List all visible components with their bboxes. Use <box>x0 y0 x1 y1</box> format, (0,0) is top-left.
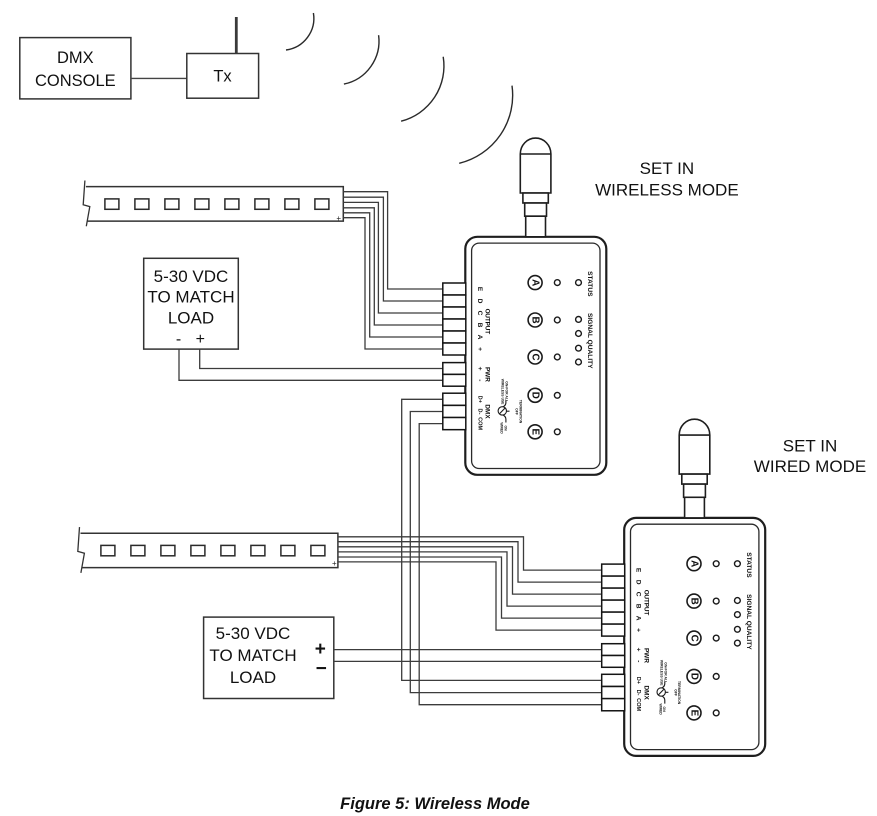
svg-text:A: A <box>689 560 700 567</box>
wire LED strip 1 to RX1 OUTPUT pin B <box>343 208 443 325</box>
svg-text:B: B <box>689 598 700 605</box>
svg-text:WIRED MODE: WIRED MODE <box>754 457 866 476</box>
svg-text:D+: D+ <box>476 396 482 404</box>
receiver RX1 DMX pin labels D+ D- COM <box>476 396 482 431</box>
receiver RX1 zone LED dots <box>554 280 560 435</box>
wire LED strip 1 to RX1 OUTPUT pin A <box>343 213 443 337</box>
svg-text:WIRELESS MODE: WIRELESS MODE <box>595 181 739 200</box>
receiver RX1 body inner outline <box>472 243 600 468</box>
svg-text:E: E <box>530 429 541 436</box>
wire RX1 DMX D- to RX2 DMX D- <box>410 412 601 693</box>
receiver RX2 termination switch <box>657 681 668 703</box>
receiver RX1 OUTPUT pin labels E D C B A + <box>476 287 483 351</box>
power supply PS1 box 5-30 VDC <box>144 258 239 349</box>
svg-text:TO MATCH: TO MATCH <box>209 646 296 665</box>
wire RX1 DMX D+ to RX2 DMX D+ <box>402 399 602 680</box>
svg-text:ON-FOR ALLWIRELESS USE: ON-FOR ALLWIRELESS USE <box>501 379 509 405</box>
svg-text:LOAD: LOAD <box>168 309 214 328</box>
receiver RX2 termination legend text <box>658 660 681 715</box>
svg-text:A: A <box>476 335 483 340</box>
svg-text:E: E <box>476 287 483 292</box>
svg-text:−: − <box>316 659 327 680</box>
wire LED strip 2 to RX2 OUTPUT pin D <box>338 542 602 582</box>
receiver RX2 PWR connector (pins + -) <box>602 644 625 668</box>
wire LED strip 2 to RX2 OUTPUT pin + <box>338 562 602 630</box>
power supply PS2 box 5-30 VDC <box>204 617 334 698</box>
svg-text:ON-FOR ALLWIRELESS USE: ON-FOR ALLWIRELESS USE <box>660 660 668 686</box>
svg-text:B: B <box>476 323 483 328</box>
svg-text:SIGNAL QUALITY: SIGNAL QUALITY <box>586 313 593 369</box>
svg-text:DMX: DMX <box>57 49 94 67</box>
wire LED strip 2 to RX2 OUTPUT pin C <box>338 547 602 594</box>
receiver RX1 body outer outline <box>465 237 606 475</box>
transmitter Tx box <box>187 54 259 99</box>
svg-text:+: + <box>476 347 483 351</box>
receiver RX2 body outer outline <box>624 518 765 756</box>
LED strip 1 LED pads <box>105 199 329 209</box>
svg-text:+: + <box>476 367 483 371</box>
svg-text:CONSOLE: CONSOLE <box>35 72 116 90</box>
receiver RX1 PWR connector (pins + -) <box>443 363 466 387</box>
LED strip 2 LED pads <box>101 545 325 555</box>
receiver RX1 SIGNAL QUALITY LED dots <box>576 317 582 365</box>
wire PS1 - to RX1 PWR - <box>179 349 443 380</box>
wire LED strip 2 to RX2 OUTPUT pin A <box>338 557 602 618</box>
LED strip 1 body <box>86 187 343 222</box>
svg-text:C: C <box>476 311 483 316</box>
receiver RX2 antenna <box>679 419 710 518</box>
svg-text:C: C <box>635 592 642 597</box>
svg-text:D-: D- <box>476 409 482 415</box>
receiver RX2 zone LED dots <box>713 561 719 716</box>
wire LED strip 2 to RX2 OUTPUT pin E <box>338 537 602 570</box>
wire LED strip 2 to RX2 OUTPUT pin B <box>338 552 602 606</box>
wire PS2 - to RX2 PWR - <box>334 660 602 662</box>
RF wave arc 1 <box>286 13 314 50</box>
LED strip 2 break mark <box>78 527 85 573</box>
svg-text:Tx: Tx <box>213 68 232 86</box>
svg-text:LOAD: LOAD <box>230 668 276 687</box>
svg-text:+: + <box>315 639 326 660</box>
receiver RX2 DMX connector (pins D+ D- COM) <box>602 674 625 710</box>
label SET IN WIRED MODE <box>754 437 866 476</box>
svg-text:SIGNAL QUALITY: SIGNAL QUALITY <box>745 594 752 650</box>
svg-text:D-: D- <box>635 690 641 696</box>
svg-text:+: + <box>196 331 205 348</box>
label SET IN WIRELESS MODE <box>595 159 739 200</box>
svg-text:D: D <box>530 392 541 399</box>
svg-text:PWR: PWR <box>484 367 491 382</box>
receiver RX1 termination legend text <box>499 379 522 434</box>
LED strip 1 break mark <box>83 181 90 227</box>
receiver RX2 SIGNAL QUALITY LED dots <box>735 598 741 646</box>
receiver RX2 OUTPUT pin labels E D C B A + <box>635 568 642 632</box>
svg-text:C: C <box>689 635 700 642</box>
receiver RX2 OUTPUT connector (pins E D C B A +) <box>602 564 625 636</box>
svg-text:+: + <box>332 559 337 568</box>
svg-text:D: D <box>635 580 642 585</box>
receiver RX2 zone indicators A B C D E <box>687 557 701 720</box>
svg-text:OUTPUT: OUTPUT <box>643 590 650 616</box>
svg-text:COM: COM <box>476 417 482 430</box>
svg-text:Figure 5: Wireless Mode: Figure 5: Wireless Mode <box>340 795 530 813</box>
receiver RX2 DMX pin labels D+ D- COM <box>635 677 641 712</box>
svg-text:TO MATCH: TO MATCH <box>147 288 234 307</box>
receiver RX2 STATUS LED dot <box>735 561 741 567</box>
svg-text:E: E <box>635 568 642 573</box>
svg-text:+: + <box>635 628 642 632</box>
wire PS2 + to RX2 PWR + <box>334 649 602 651</box>
RF wave arc 3 <box>401 57 444 121</box>
svg-text:B: B <box>635 604 642 609</box>
svg-text:DMX: DMX <box>643 685 650 700</box>
wire LED strip 1 to RX1 OUTPUT pin C <box>343 202 443 313</box>
receiver RX2 PWR pin labels + - <box>635 648 642 663</box>
svg-text:C: C <box>530 353 541 360</box>
wire LED strip 1 to RX1 OUTPUT pin + <box>343 218 443 349</box>
svg-text:PWR: PWR <box>643 648 650 663</box>
wire console to Tx <box>131 77 187 79</box>
svg-text:D: D <box>689 673 700 680</box>
svg-text:E: E <box>689 710 700 717</box>
svg-text:5-30 VDC: 5-30 VDC <box>216 624 291 643</box>
svg-text:A: A <box>635 616 642 621</box>
wire LED strip 1 to RX1 OUTPUT pin D <box>343 197 443 301</box>
svg-text:A: A <box>530 279 541 286</box>
svg-text:5-30 VDC: 5-30 VDC <box>154 267 229 286</box>
receiver RX1 OUTPUT connector (pins E D C B A +) <box>443 283 466 355</box>
receiver RX1 zone indicators A B C D E <box>528 276 542 439</box>
receiver RX2 body inner outline <box>631 524 759 749</box>
receiver RX1 termination switch <box>498 400 509 422</box>
RF wave arc 4 <box>459 86 512 164</box>
receiver RX1 PWR pin labels + - <box>476 367 483 382</box>
wire LED strip 1 to RX1 OUTPUT pin E <box>343 192 443 289</box>
svg-text:COM: COM <box>635 698 641 711</box>
svg-text:-: - <box>635 660 642 662</box>
RF wave arc 2 <box>344 35 379 84</box>
svg-text:STATUS: STATUS <box>745 552 752 578</box>
receiver RX1 antenna <box>520 138 551 237</box>
Tx antenna <box>235 17 238 54</box>
svg-text:OUTPUT: OUTPUT <box>484 309 491 335</box>
svg-text:SET IN: SET IN <box>640 159 694 178</box>
wire RX1 DMX COM to RX2 DMX COM <box>419 424 602 705</box>
LED strip 2 body <box>81 533 338 567</box>
svg-text:B: B <box>530 316 541 323</box>
svg-text:-: - <box>476 379 483 381</box>
svg-text:D: D <box>476 299 483 304</box>
svg-text:DMX: DMX <box>484 404 491 419</box>
svg-text:+: + <box>635 648 642 652</box>
svg-text:-: - <box>176 331 181 348</box>
wire PS1 + to RX1 PWR + <box>200 349 443 368</box>
svg-text:STATUS: STATUS <box>586 271 593 297</box>
svg-text:D+: D+ <box>635 677 641 685</box>
svg-text:SET IN: SET IN <box>783 437 837 456</box>
DMX console box <box>20 38 131 99</box>
svg-text:+: + <box>336 214 341 223</box>
receiver RX1 STATUS LED dot <box>576 280 582 286</box>
receiver RX1 DMX connector (pins D+ D- COM) <box>443 393 466 429</box>
